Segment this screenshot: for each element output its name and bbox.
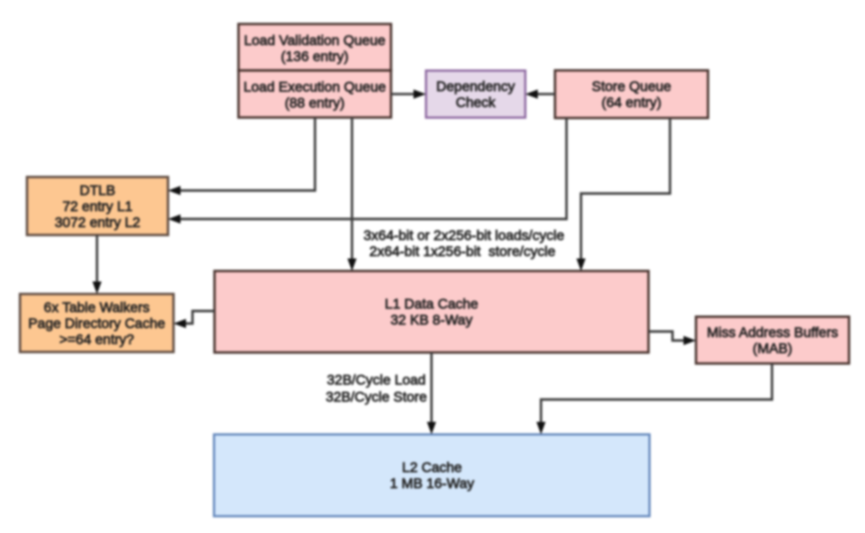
label 6x Table Walkers text <box>28 299 165 347</box>
block Miss Address Buffers <box>696 317 849 364</box>
wire Load Execution Queue to Dependency Check <box>391 90 426 99</box>
svg-text:L1 Data Cache: L1 Data Cache <box>385 296 479 312</box>
label 32B per cycle note <box>326 372 427 405</box>
label DTLB text <box>55 182 141 230</box>
svg-text:L2 Cache: L2 Cache <box>402 459 462 475</box>
svg-text:2x64-bit 1x256-bit store/cycl: 2x64-bit 1x256-bit store/cycle <box>369 243 555 259</box>
wire L1 Data Cache to Miss Address Buffers <box>649 332 697 346</box>
wire Store Queue to L1 Data Cache <box>576 118 670 271</box>
svg-text:1 MB 16-Way: 1 MB 16-Way <box>390 475 474 491</box>
label Load Execution Queue text <box>243 79 386 111</box>
svg-text:32 KB 8-Way: 32 KB 8-Way <box>391 312 473 328</box>
block Dependency Check <box>426 71 525 118</box>
label Miss Address Buffers text <box>707 324 838 356</box>
svg-text:6x Table Walkers: 6x Table Walkers <box>44 299 150 315</box>
label Dependency Check text <box>436 78 515 110</box>
block Load Validation Queue <box>239 24 392 71</box>
label loads per cycle note <box>364 227 565 259</box>
svg-text:72 entry L1: 72 entry L1 <box>62 198 132 214</box>
svg-text:Store Queue: Store Queue <box>592 78 672 94</box>
svg-text:3x64-bit or 2x256-bit loads/cy: 3x64-bit or 2x256-bit loads/cycle <box>364 227 565 243</box>
svg-text:32B/Cycle Store: 32B/Cycle Store <box>326 389 427 405</box>
svg-text:(88 entry): (88 entry) <box>285 95 345 111</box>
wire Miss Address Buffers to L2 Cache <box>536 364 772 435</box>
svg-text:Load Execution Queue: Load Execution Queue <box>243 79 386 95</box>
svg-text:(136 entry): (136 entry) <box>281 48 349 64</box>
svg-text:Dependency: Dependency <box>436 78 515 94</box>
wire Load Execution Queue to DTLB <box>168 118 315 196</box>
svg-text:DTLB: DTLB <box>80 182 116 198</box>
svg-text:3072 entry L2: 3072 entry L2 <box>55 214 141 230</box>
block Store Queue <box>555 70 708 118</box>
block L1 Data Cache <box>215 271 649 353</box>
wire Store Queue to Dependency Check <box>525 90 555 99</box>
label L2 Cache text <box>390 459 474 491</box>
wire L1 Data Cache to L2 Cache <box>427 353 436 435</box>
wire Store Queue to DTLB <box>168 118 567 224</box>
wire DTLB to 6x Table Walkers <box>92 235 101 294</box>
svg-text:Page Directory Cache: Page Directory Cache <box>28 315 165 331</box>
block DTLB <box>27 177 168 235</box>
svg-text:32B/Cycle Load: 32B/Cycle Load <box>327 372 426 388</box>
wire Load Execution Queue to L1 Data Cache <box>347 118 356 272</box>
svg-text:Miss Address Buffers: Miss Address Buffers <box>707 324 838 340</box>
svg-text:(MAB): (MAB) <box>753 340 793 356</box>
svg-text:Check: Check <box>456 94 497 110</box>
svg-text:Load Validation Queue: Load Validation Queue <box>244 32 386 48</box>
svg-text:(64 entry): (64 entry) <box>602 94 662 110</box>
label Store Queue text <box>592 78 672 110</box>
label L1 Data Cache text <box>385 296 479 328</box>
label Load Validation Queue text <box>244 32 386 64</box>
svg-text:>=64 entry?: >=64 entry? <box>59 331 134 347</box>
wire L1 Data Cache to 6x Table Walkers <box>174 311 215 328</box>
block Load Execution Queue <box>239 71 392 118</box>
block L2 Cache <box>214 434 650 516</box>
block 6x Table Walkers <box>20 294 174 352</box>
